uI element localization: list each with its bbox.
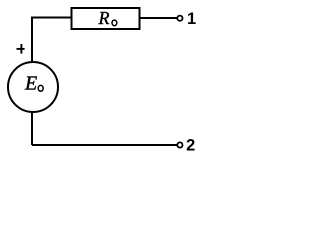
svg-text:2: 2: [186, 137, 195, 155]
svg-text:E: E: [24, 73, 37, 95]
svg-text:1: 1: [187, 10, 196, 28]
svg-text:R: R: [98, 8, 110, 28]
